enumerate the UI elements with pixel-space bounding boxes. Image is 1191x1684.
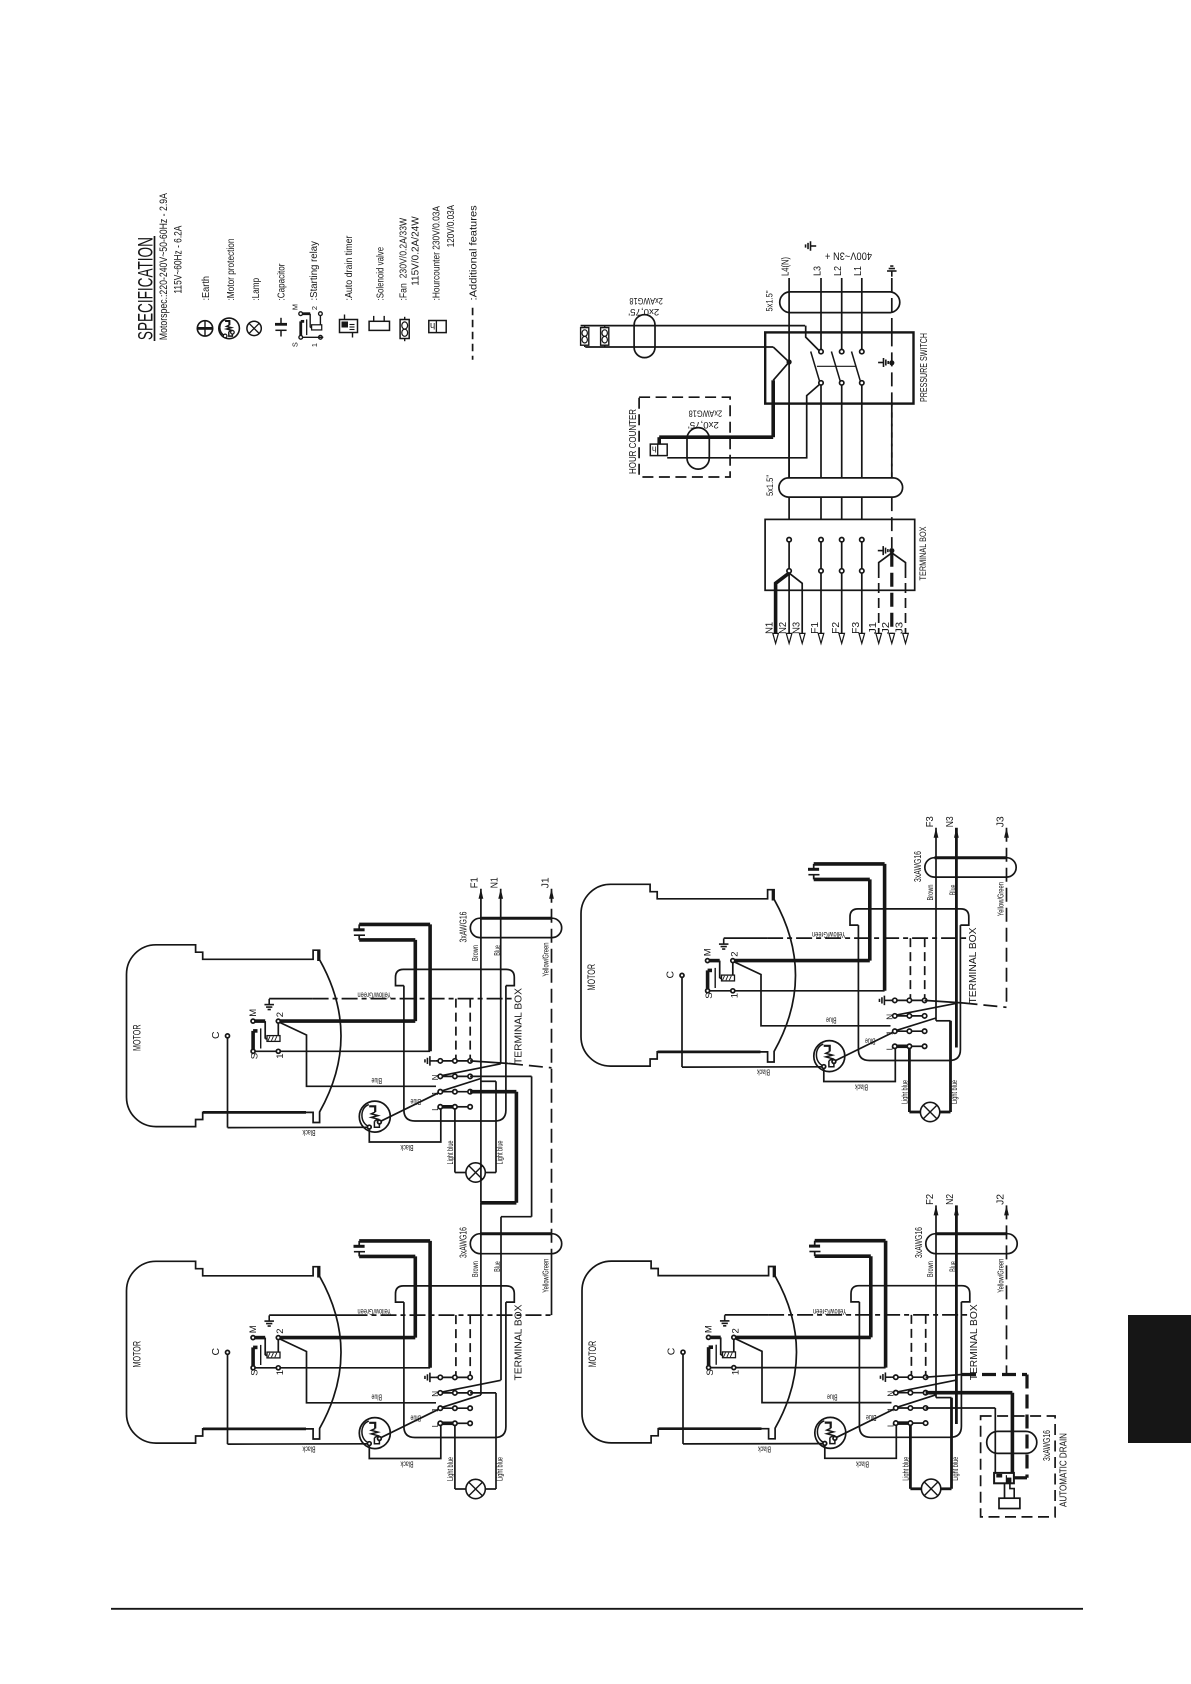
svg-text:MOTOR: MOTOR [132, 1024, 144, 1051]
svg-text:MOTOR: MOTOR [586, 964, 598, 991]
svg-text:1: 1 [729, 993, 740, 998]
svg-text::Starting relay: :Starting relay [308, 240, 320, 300]
svg-text:S: S [705, 1369, 716, 1375]
svg-text:Light blue: Light blue [950, 1457, 960, 1481]
svg-text::Motor protection: :Motor protection [225, 238, 237, 300]
svg-text:400V~3N +: 400V~3N + [825, 250, 872, 262]
svg-text:TERMINAL BOX: TERMINAL BOX [513, 1305, 525, 1381]
svg-text:Black: Black [302, 1445, 315, 1455]
svg-text:J2: J2 [880, 622, 892, 634]
svg-text:2: 2 [275, 1012, 286, 1017]
svg-text:F3: F3 [850, 622, 862, 634]
svg-text:Blue: Blue [827, 1393, 838, 1403]
svg-text:Yellow/Green: Yellow/Green [541, 1259, 551, 1293]
svg-text:TERMINAL BOX: TERMINAL BOX [968, 1304, 980, 1380]
svg-text::Earth: :Earth [200, 276, 212, 301]
svg-text:2: 2 [730, 1328, 741, 1333]
svg-text:120V/0.03A: 120V/0.03A [445, 205, 457, 247]
svg-text:Black: Black [757, 1068, 770, 1078]
svg-text:1: 1 [275, 1054, 286, 1059]
svg-text:Black: Black [856, 1459, 869, 1469]
svg-text:2x0,75': 2x0,75' [628, 306, 659, 317]
svg-text:F3: F3 [924, 816, 936, 827]
svg-text:Blue: Blue [865, 1036, 876, 1046]
svg-text:F1: F1 [809, 622, 821, 634]
svg-text:Brown: Brown [470, 1261, 480, 1277]
svg-text::Additional features: :Additional features [467, 205, 479, 300]
svg-text::Hourcounter 230V/0.03A: :Hourcounter 230V/0.03A [431, 206, 443, 301]
svg-text:1: 1 [730, 1370, 741, 1375]
svg-text:J1: J1 [539, 877, 551, 888]
svg-text:L4(N): L4(N) [781, 257, 792, 276]
svg-text:Black: Black [855, 1083, 868, 1093]
svg-text:J3: J3 [994, 816, 1006, 827]
svg-text:PRESSURE SWITCH: PRESSURE SWITCH [918, 333, 930, 402]
svg-text:TERMINAL BOX: TERMINAL BOX [513, 988, 525, 1064]
svg-text:2xAWG18: 2xAWG18 [689, 408, 723, 419]
svg-text:M: M [248, 1325, 259, 1333]
svg-text:C: C [666, 1347, 678, 1355]
svg-text:Yellow/Green: Yellow/Green [813, 1307, 847, 1317]
svg-text:1: 1 [310, 343, 319, 347]
svg-text:MOTOR: MOTOR [587, 1341, 599, 1368]
svg-text:S: S [249, 1369, 260, 1375]
svg-text::Auto drain timer: :Auto drain timer [343, 235, 355, 300]
svg-text:Light blue: Light blue [445, 1140, 455, 1164]
svg-text:Yellow/Green: Yellow/Green [357, 1307, 391, 1317]
svg-text:Yellow/Green: Yellow/Green [541, 942, 551, 976]
svg-text:MOTOR: MOTOR [132, 1341, 144, 1368]
svg-text:N1: N1 [764, 622, 776, 634]
svg-text:Blue: Blue [371, 1076, 382, 1086]
svg-text:L3: L3 [812, 266, 823, 276]
svg-text:Yellow/Green: Yellow/Green [996, 1259, 1006, 1293]
svg-text::Fan 230V/0.2A/33W: :Fan 230V/0.2A/33W [398, 218, 410, 301]
svg-text:S: S [704, 992, 715, 998]
svg-text:C: C [210, 1031, 222, 1039]
svg-text:M: M [703, 948, 714, 956]
svg-text:N2: N2 [777, 622, 789, 634]
svg-text:F1: F1 [469, 877, 481, 888]
svg-text:Brown: Brown [470, 945, 480, 961]
svg-text::Solenoid valve: :Solenoid valve [374, 247, 386, 301]
svg-text:Brown: Brown [925, 884, 935, 900]
svg-text::Capacitor: :Capacitor [276, 263, 288, 300]
svg-text:5x1.5": 5x1.5" [765, 291, 776, 312]
svg-text:N3: N3 [790, 622, 802, 634]
svg-text:Black: Black [400, 1143, 413, 1153]
svg-text:Light blue: Light blue [949, 1080, 959, 1104]
svg-text:TERMINAL BOX: TERMINAL BOX [967, 928, 979, 1004]
svg-text:Yellow/Green: Yellow/Green [996, 882, 1006, 916]
svg-text:Light blue: Light blue [900, 1457, 910, 1481]
svg-text:J2: J2 [994, 1194, 1006, 1205]
svg-text:2: 2 [729, 951, 740, 956]
svg-text:L1: L1 [853, 266, 864, 276]
svg-text:3xAWG16: 3xAWG16 [912, 851, 924, 882]
svg-text:Motorspec.:220-240V~50-60Hz -: Motorspec.:220-240V~50-60Hz - 2.9A [158, 193, 170, 341]
svg-text:Blue: Blue [371, 1393, 382, 1403]
svg-text:Black: Black [758, 1444, 771, 1454]
svg-text:M: M [290, 304, 299, 310]
svg-text:Blue: Blue [826, 1016, 837, 1026]
svg-text::Lamp: :Lamp [250, 278, 262, 301]
svg-text:AUTOMATIC DRAIN: AUTOMATIC DRAIN [1058, 1433, 1070, 1507]
svg-text:2: 2 [310, 306, 319, 310]
svg-text:2: 2 [275, 1328, 286, 1333]
svg-text:3xAWG16: 3xAWG16 [1041, 1430, 1053, 1461]
svg-text:S: S [249, 1053, 260, 1059]
svg-text:TERMINAL BOX: TERMINAL BOX [918, 526, 929, 581]
svg-text:Black: Black [302, 1128, 315, 1138]
svg-text:N2: N2 [944, 1194, 956, 1205]
svg-text:Blue: Blue [410, 1097, 421, 1107]
svg-text:115V~60Hz - 6.2A: 115V~60Hz - 6.2A [173, 225, 185, 293]
svg-text:J3: J3 [894, 622, 906, 634]
svg-text:F2: F2 [830, 622, 842, 634]
svg-text:C: C [665, 971, 677, 979]
svg-text:Blue: Blue [410, 1413, 421, 1423]
svg-text:1: 1 [275, 1370, 286, 1375]
svg-text:J1: J1 [867, 622, 879, 634]
svg-text:Light blue: Light blue [899, 1080, 909, 1104]
svg-text:Light blue: Light blue [495, 1140, 505, 1164]
svg-text:S: S [290, 342, 299, 347]
svg-text:M: M [248, 1009, 259, 1017]
svg-text:C: C [210, 1348, 222, 1356]
svg-text:M: M [704, 1325, 715, 1333]
svg-text:115V/0.2A/24W: 115V/0.2A/24W [410, 216, 422, 286]
svg-text:3xAWG16: 3xAWG16 [458, 911, 470, 942]
svg-text:5x1.5": 5x1.5" [765, 475, 776, 496]
svg-text:2xAWG18: 2xAWG18 [629, 295, 663, 306]
svg-text:3xAWG16: 3xAWG16 [913, 1227, 925, 1258]
svg-text:Yellow/Green: Yellow/Green [357, 991, 391, 1001]
svg-text:Light blue: Light blue [445, 1457, 455, 1481]
svg-text:N1: N1 [489, 877, 501, 888]
svg-text:3xAWG16: 3xAWG16 [458, 1227, 470, 1258]
svg-text:N3: N3 [944, 816, 956, 827]
svg-text:Blue: Blue [866, 1413, 877, 1423]
svg-text:h: h [652, 444, 657, 454]
svg-text:HOUR COUNTER: HOUR COUNTER [628, 409, 639, 474]
svg-text:Black: Black [400, 1460, 413, 1470]
svg-text:F2: F2 [924, 1194, 936, 1205]
svg-text:h: h [430, 320, 435, 331]
svg-text:2x0,75': 2x0,75' [688, 419, 719, 430]
svg-text:L2: L2 [833, 266, 844, 276]
svg-text:Brown: Brown [925, 1261, 935, 1277]
svg-text:Yellow/Green: Yellow/Green [812, 930, 846, 940]
svg-text:Light blue: Light blue [495, 1457, 505, 1481]
